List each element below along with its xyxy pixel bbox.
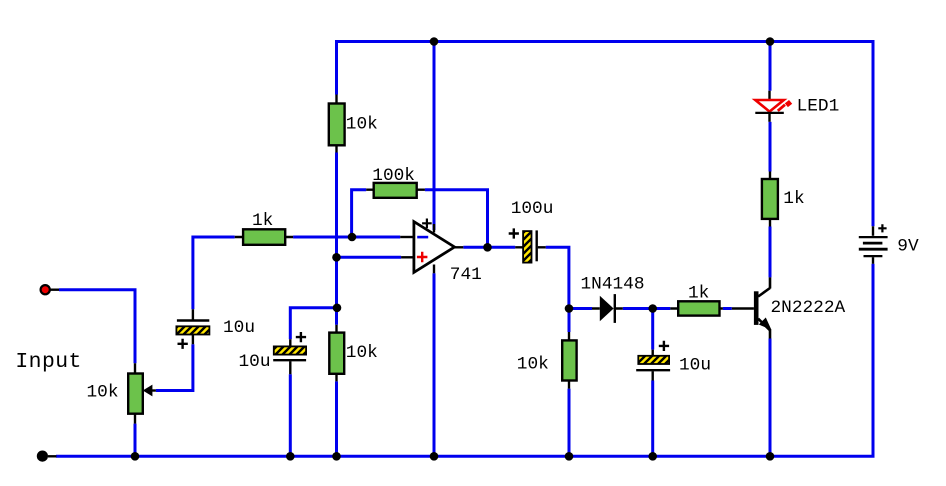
node dot diode anode [565,304,574,313]
node dot non-inverting input [332,253,341,262]
diode D1 1N4148 [592,294,623,323]
node dot top rail at LED column [766,37,775,46]
wire node to 10u cap 3 [651,309,654,350]
op-amp U1 741 [400,219,463,274]
node dot cap2 branch [333,304,342,313]
wire potentiometer bottom to ground rail [134,424,137,457]
node dot ground rail at cap3 [648,452,657,461]
node dot ground rail at 10k [565,452,574,461]
wire LED column top [769,42,772,91]
svg-text:LED1: LED1 [797,96,840,116]
svg-text:10k: 10k [346,343,378,363]
wire LED to 1k [769,122,772,172]
resistor R 1k LED [762,172,778,227]
wire left column x336 middle (10k to 10k) [335,153,338,325]
wire top rail and right supply column [337,42,874,227]
wire 1k to transistor collector [769,227,772,278]
capacitor C2 10u electrolytic (middle) [273,332,306,374]
node dot ground rail at cap2 [286,452,295,461]
wire 10u cap 2 bottom to ground rail [289,374,292,456]
wire node to 1k base resistor [653,307,671,310]
input terminal (red) [41,285,59,294]
svg-text:1k: 1k [252,211,273,231]
svg-text:10u: 10u [679,356,711,376]
common terminal (black) [37,451,57,462]
wire 10u cap 3 to ground rail [651,381,654,457]
wire 10k resistor to ground rail [568,389,571,457]
svg-text:10u: 10u [223,318,255,338]
svg-text:100k: 100k [372,166,415,186]
wire 100k right lead to feedback drop [425,190,488,248]
resistor R 100k feedback [366,183,425,198]
node dot ground rail at potentiometer [131,452,140,461]
resistor R 10k middle [329,325,344,382]
potentiometer VR1 10k [128,363,156,423]
node dot op-amp output [483,243,492,252]
wire node to 10k resistor [568,309,571,333]
svg-text:Input: Input [15,350,81,374]
battery B1 9V [859,224,888,264]
wire op-amp V- column x434 to ground rail [433,273,436,456]
node dot ground rail at op-amp column [430,452,439,461]
resistor R 1k base [670,301,723,315]
wire 1k to op-amp inverting input [293,236,400,239]
svg-text:10k: 10k [346,114,378,134]
wire 100u cap to diode node [546,247,569,308]
wire op-amp output to 100u cap [463,246,515,249]
wire input terminal to potentiometer [59,290,135,364]
svg-text:10k: 10k [517,354,549,374]
resistor R 10k top [329,95,345,153]
wire left column x336 bottom [335,381,338,456]
svg-text:2N2222A: 2N2222A [771,298,846,318]
svg-text:9V: 9V [897,236,919,256]
resistor R 10k below diode [562,332,576,389]
transistor Q1 2N2222A [732,277,772,338]
wire 100k left lead drop to inverting node [352,190,367,237]
svg-text:741: 741 [450,265,482,285]
wire transistor emitter to ground rail [769,339,772,457]
wire diode cathode to node [623,307,653,310]
wire op-amp V+ column x434 [433,42,436,231]
svg-text:1k: 1k [783,189,804,209]
resistor R 1k input [235,229,293,245]
capacitor C3 100u electrolytic (output, vertical plates) [509,228,546,262]
wire 10u cap top to 1k resistor [193,237,235,309]
svg-text:1N4148: 1N4148 [581,275,645,295]
wire left column x336 top (rail to 10k) [335,40,338,95]
wire right column below battery and bottom ground rail [56,264,873,457]
wire node to 10u cap 2 branch [290,308,337,339]
capacitor C1 10u electrolytic (left) [176,309,209,349]
svg-text:1k: 1k [688,284,709,304]
node dot inverting input [348,233,357,242]
node dot diode cathode [648,304,657,313]
node dot ground rail at emitter [766,452,775,461]
svg-text:10k: 10k [87,383,119,403]
node dot top rail at op-amp column [430,37,439,46]
wire non-inverting input [337,256,402,259]
svg-text:10u: 10u [239,352,271,372]
svg-text:100u: 100u [511,199,554,219]
capacitor C4 10u electrolytic (right) [636,341,670,381]
wire diode anode [569,307,592,310]
node dot ground rail at x336 [332,452,341,461]
wire potentiometer wiper to 10u cap [156,344,193,390]
LED1 [755,91,792,122]
wire 1k to transistor base [723,307,732,310]
